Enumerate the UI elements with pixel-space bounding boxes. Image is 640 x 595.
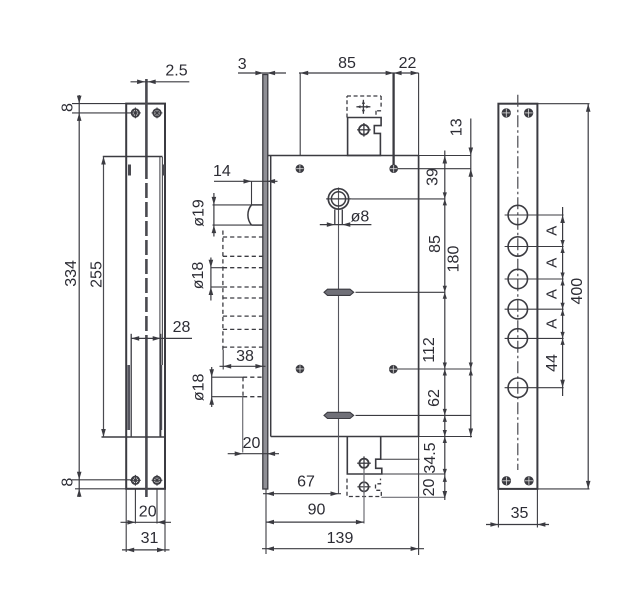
dim o18 upper stubs bbox=[211, 267, 223, 269]
case front edge line bbox=[270, 156, 272, 437]
upper spindle slot bbox=[324, 289, 354, 295]
dim 38 dimension line bbox=[220, 365, 266, 367]
faceplate strip (side view) bbox=[263, 75, 268, 490]
upper case screws bbox=[296, 165, 303, 172]
bottom aux dashed screw bbox=[359, 482, 368, 491]
vertical center line of lock bbox=[338, 188, 340, 494]
svg-text:ø19: ø19 bbox=[191, 199, 208, 227]
aux bottom extension line bbox=[382, 473, 445, 475]
svg-text:8: 8 bbox=[60, 103, 77, 112]
dim 3 dimension line bbox=[238, 72, 286, 74]
handle follower hole bbox=[328, 189, 348, 209]
svg-text:112: 112 bbox=[421, 337, 438, 363]
svg-text:22: 22 bbox=[399, 55, 417, 72]
latch bolt (o19) bbox=[252, 204, 264, 206]
svg-text:20: 20 bbox=[139, 504, 157, 521]
dim 20 (left view bottom) extension lines bbox=[134, 489, 136, 524]
upper screw extension line bbox=[397, 168, 470, 170]
dim 67 dimension line bbox=[263, 493, 341, 495]
lower case screws bbox=[296, 365, 303, 372]
left view slot edges (28 wide) bbox=[130, 334, 132, 437]
cylinder hole hidden lines (dashed) bbox=[223, 236, 264, 238]
dim o18 lower stubs bbox=[212, 376, 243, 378]
dim 8 bottom extension lines bbox=[72, 479, 133, 481]
lower spindle extension line bbox=[356, 414, 471, 416]
dim 90 dimension line bbox=[266, 521, 364, 523]
svg-text:34.5: 34.5 bbox=[422, 442, 439, 473]
dim 85 left extension line bbox=[299, 73, 301, 156]
svg-text:255: 255 bbox=[89, 261, 106, 288]
dim o19 extension lines bbox=[213, 204, 252, 206]
svg-text:180: 180 bbox=[446, 246, 463, 273]
bottom aux latch dashed box bbox=[347, 479, 381, 497]
svg-text:85: 85 bbox=[427, 235, 444, 253]
right view center line (dash-dot) bbox=[517, 95, 519, 470]
lower spindle slot bbox=[324, 412, 354, 418]
svg-text:ø18: ø18 bbox=[190, 262, 207, 290]
svg-text:A: A bbox=[544, 258, 561, 268]
aux notch extension line bbox=[381, 458, 420, 460]
bottom aux latch body bbox=[347, 437, 382, 474]
aux dashed-box bottom extension line bbox=[381, 496, 445, 498]
dim 31 dimension line bbox=[122, 549, 170, 551]
dim 400 dimension line bbox=[587, 104, 589, 489]
dim 8 top-left extension lines bbox=[72, 103, 126, 105]
svg-text:39: 39 bbox=[424, 168, 441, 186]
left view center line bbox=[145, 79, 148, 164]
lower screw extension line bbox=[397, 368, 471, 370]
svg-text:A: A bbox=[544, 289, 561, 299]
top latch body bbox=[348, 118, 382, 156]
left view inner plate bottom edge bbox=[102, 436, 166, 438]
dim o8 dimension line bbox=[320, 224, 372, 226]
dim 2.5 (top of left view) bbox=[131, 81, 190, 83]
bottom aux latch screw bbox=[359, 459, 368, 468]
dim 14 dimension line bbox=[214, 180, 278, 182]
right view faceplate outline bbox=[498, 104, 537, 489]
svg-text:20: 20 bbox=[421, 479, 438, 497]
dim 28 dimension line bbox=[131, 337, 192, 339]
dim 31 extension lines bbox=[125, 489, 127, 552]
dim o18 upper dimension line bbox=[210, 258, 212, 301]
svg-text:62: 62 bbox=[426, 389, 443, 407]
case bottom edge bbox=[271, 436, 419, 438]
lower cylinder hole (dashed) bbox=[243, 376, 263, 378]
case right edge bbox=[418, 73, 420, 156]
dimension line B (far right of case) bbox=[470, 119, 472, 438]
dim 35 dimension line bbox=[486, 524, 549, 526]
left view lower thick bars bbox=[127, 365, 130, 430]
svg-text:13: 13 bbox=[449, 118, 466, 136]
90 extension from aux screw bbox=[363, 468, 365, 523]
dim o19 dimension line bbox=[213, 193, 215, 237]
svg-text:ø18: ø18 bbox=[191, 374, 208, 402]
svg-text:28: 28 bbox=[173, 319, 191, 336]
svg-text:90: 90 bbox=[308, 502, 326, 519]
svg-text:139: 139 bbox=[327, 530, 354, 547]
top latch extended position (dashed) bbox=[346, 96, 348, 118]
svg-text:ø8: ø8 bbox=[351, 209, 370, 226]
svg-text:8: 8 bbox=[60, 478, 77, 487]
svg-text:35: 35 bbox=[511, 505, 529, 522]
dimension line A (right of case) bbox=[444, 151, 446, 501]
dim 14 extension line bbox=[251, 181, 253, 205]
left view outer plate bbox=[126, 104, 165, 489]
dim 85/22 dimension line (top) bbox=[299, 72, 419, 74]
left view top screws bbox=[132, 109, 140, 117]
svg-text:400: 400 bbox=[569, 278, 586, 305]
dim 255 dimension line bbox=[103, 157, 105, 438]
strip left bottom extension line bbox=[265, 490, 267, 555]
svg-text:2.5: 2.5 bbox=[165, 63, 187, 80]
svg-text:85: 85 bbox=[338, 55, 356, 72]
case top edge bbox=[268, 155, 419, 157]
thick extension to upper right screw bbox=[392, 73, 394, 169]
left view mounting tabs bbox=[128, 165, 131, 176]
top latch position cross marker bbox=[356, 106, 370, 108]
svg-text:20: 20 bbox=[243, 435, 261, 452]
dim o18 lower dimension line bbox=[211, 367, 213, 407]
dim 35 extension lines bbox=[497, 490, 499, 528]
left view inner double lines bbox=[159, 157, 161, 437]
svg-text:44: 44 bbox=[544, 354, 561, 372]
svg-text:A: A bbox=[544, 319, 561, 329]
left view bottom screws bbox=[132, 477, 140, 485]
follower to dim line A extension bbox=[352, 198, 446, 200]
top latch screw bbox=[359, 125, 369, 135]
dim 20 (lower left) extension line bbox=[242, 397, 244, 453]
svg-text:3: 3 bbox=[238, 56, 247, 73]
dim 38 left extension bbox=[222, 350, 224, 370]
right view bottom screws bbox=[502, 477, 510, 485]
svg-text:A: A bbox=[544, 226, 561, 236]
right view cylinder holes bbox=[508, 205, 527, 224]
dim 334/8 dimension line bbox=[78, 95, 80, 497]
svg-text:38: 38 bbox=[236, 348, 254, 365]
dim 20 (left view bottom) dimension line bbox=[121, 521, 172, 523]
right view top screws bbox=[502, 109, 510, 117]
svg-text:31: 31 bbox=[141, 530, 159, 547]
dim 20 (lower left) dimension line bbox=[228, 453, 279, 455]
svg-text:334: 334 bbox=[63, 260, 80, 287]
hole spacing dimension line bbox=[562, 207, 564, 396]
left view inner plate top edge bbox=[103, 156, 163, 158]
upper spindle extension line bbox=[356, 291, 446, 293]
dim 139 dimension line bbox=[262, 548, 424, 550]
svg-text:14: 14 bbox=[213, 163, 231, 180]
svg-text:67: 67 bbox=[297, 474, 315, 491]
dim o8 extension lines bbox=[334, 210, 336, 225]
dim 400 extension lines bbox=[537, 103, 589, 105]
